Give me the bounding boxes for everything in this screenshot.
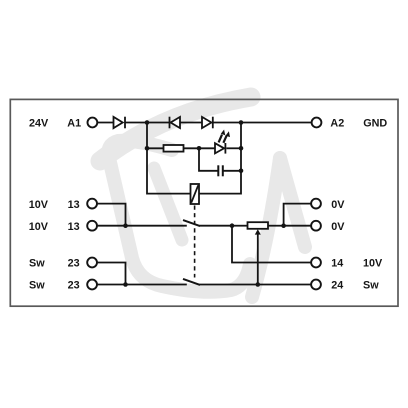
svg-text:14: 14 — [331, 258, 343, 270]
terminal 13 lower — [87, 221, 97, 231]
svg-text:24V: 24V — [29, 118, 49, 130]
svg-text:Sw: Sw — [29, 280, 45, 292]
mechanical link (dashed) — [194, 206, 196, 278]
diode D1 — [114, 117, 126, 129]
svg-text:GND: GND — [363, 118, 387, 130]
terminal 13 upper — [87, 199, 97, 209]
wire node C down to 14 — [232, 226, 311, 263]
svg-text:10V: 10V — [29, 199, 49, 211]
wire pot wiper down — [257, 233, 259, 285]
junction node wiper-24 — [255, 282, 260, 287]
wire pot to node D — [268, 225, 284, 227]
svg-text:13: 13 — [68, 221, 80, 233]
wire node to resistor R1 — [147, 147, 164, 149]
junction node pot left — [230, 223, 235, 228]
wire 0V upper — [284, 204, 311, 226]
junction node LED left — [197, 146, 202, 151]
terminal 14 — [311, 258, 321, 268]
junction node cap right — [239, 169, 244, 174]
watermark J-hook glyph — [108, 141, 250, 292]
terminal 23 lower — [87, 280, 97, 290]
svg-text:0V: 0V — [331, 199, 345, 211]
LED D4 — [215, 143, 225, 154]
terminal 24 — [311, 280, 321, 290]
resistor R1 — [164, 145, 184, 152]
wire vertical left branch — [147, 123, 191, 194]
svg-text:23: 23 — [68, 280, 80, 292]
wire 23 upper to join — [97, 263, 126, 285]
potentiometer wiper arrow — [255, 229, 261, 234]
junction node R1 left — [145, 146, 150, 151]
wire node B to A2 — [241, 122, 312, 124]
wire node D to 0V lower — [284, 225, 311, 227]
switch S1 blade — [183, 220, 200, 226]
svg-text:23: 23 — [68, 258, 80, 270]
potentiometer R2 — [248, 222, 269, 229]
svg-text:Sw: Sw — [29, 258, 45, 270]
terminal A2 — [312, 118, 322, 128]
junction node 13 join — [123, 223, 128, 228]
terminal A1 — [88, 118, 98, 128]
wire S2 to 24 terminal — [200, 284, 312, 286]
svg-text:10V: 10V — [29, 221, 49, 233]
wire 13 lower to switch S1 — [97, 225, 187, 227]
junction node top-right — [239, 120, 244, 125]
capacitor C1 — [218, 165, 223, 176]
relay coil K1 — [191, 184, 200, 204]
switch S2 blade — [183, 279, 200, 285]
svg-text:A2: A2 — [330, 118, 344, 130]
junction node LED right — [239, 146, 244, 151]
watermark lambda left leg — [252, 158, 280, 297]
svg-text:24: 24 — [331, 280, 343, 292]
terminal 0V lower — [311, 221, 321, 231]
wire capacitor branch left — [199, 148, 218, 171]
watermark swoosh top — [100, 97, 251, 161]
watermark logo (light gray) — [100, 97, 305, 297]
svg-text:13: 13 — [68, 199, 80, 211]
svg-text:Sw: Sw — [363, 280, 379, 292]
wire LED to right rail — [226, 147, 241, 149]
wire D3 to node B — [213, 122, 241, 124]
diode D3 — [202, 117, 213, 129]
LED light arrows — [219, 130, 230, 143]
wire node C to pot — [232, 225, 248, 227]
junction node top-left — [145, 120, 150, 125]
junction node pot right — [281, 223, 286, 228]
diode D2 (points left) — [170, 117, 181, 129]
wire right rail vertical — [199, 123, 241, 194]
terminal 23 upper — [87, 258, 97, 268]
wire capacitor to right rail — [223, 170, 241, 172]
terminal 0V upper — [311, 199, 321, 209]
watermark lambda right leg — [280, 158, 305, 247]
svg-text:10V: 10V — [363, 258, 383, 270]
watermark inner diagonal — [154, 168, 182, 240]
svg-text:A1: A1 — [67, 118, 81, 130]
wire S1 to node C — [200, 225, 233, 227]
wire 13 upper to join — [97, 204, 126, 226]
wire D1 to D2 through node — [125, 122, 170, 124]
svg-text:0V: 0V — [331, 221, 345, 233]
border frame — [10, 99, 398, 306]
wire 23 lower to switch S2 — [97, 284, 187, 286]
wire A1 to D1 — [97, 122, 113, 124]
wire R1 to LED node — [184, 147, 216, 149]
junction node 23 join — [123, 282, 128, 287]
wire D2 to D3 — [180, 122, 202, 124]
